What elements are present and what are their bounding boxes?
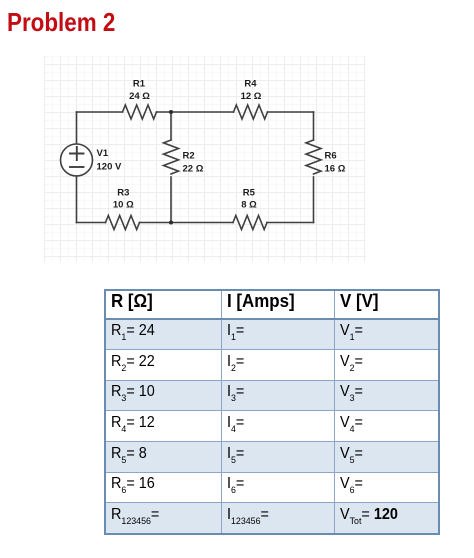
wire right rail upper	[313, 112, 315, 140]
svg-text:R4: R4	[244, 79, 257, 90]
label R2	[183, 151, 204, 175]
resistor R4	[234, 105, 268, 119]
resistor R6	[306, 140, 321, 174]
label V1	[97, 148, 122, 173]
wire top-middle	[157, 111, 234, 113]
schematic grid background	[44, 56, 366, 262]
wire bottom-left	[77, 222, 106, 224]
node junction top	[169, 110, 173, 114]
svg-text:V1: V1	[97, 148, 109, 159]
wire bottom-right	[267, 222, 314, 224]
label R3	[113, 188, 134, 211]
svg-text:R2: R2	[183, 151, 195, 162]
svg-text:12 Ω: 12 Ω	[241, 91, 262, 102]
wire bottom-middle	[140, 222, 234, 224]
label R6	[325, 151, 346, 175]
V1 plus sign	[70, 147, 84, 160]
wire top-left	[77, 111, 123, 113]
V1 minus sign	[70, 166, 84, 168]
resistor R2	[164, 140, 179, 174]
svg-text:R6: R6	[325, 151, 337, 162]
label R1	[129, 79, 150, 103]
svg-text:22 Ω: 22 Ω	[183, 164, 204, 175]
label R4	[241, 79, 262, 103]
svg-text:24 Ω: 24 Ω	[129, 91, 150, 102]
resistor R1	[123, 105, 157, 119]
svg-text:120 V: 120 V	[97, 162, 122, 173]
svg-text:R5: R5	[243, 188, 256, 199]
wire top-right	[268, 111, 314, 113]
wire right rail lower	[313, 177, 315, 223]
svg-text:R1: R1	[133, 79, 146, 90]
wire left rail lower	[76, 176, 78, 223]
wire left rail upper	[76, 112, 78, 144]
resistor R3	[106, 216, 140, 230]
svg-text:8 Ω: 8 Ω	[241, 200, 257, 211]
svg-text:16 Ω: 16 Ω	[325, 164, 346, 175]
label R5	[241, 188, 257, 211]
svg-text:10 Ω: 10 Ω	[113, 200, 134, 211]
svg-text:R3: R3	[117, 188, 129, 199]
results table	[104, 289, 440, 535]
title	[7, 7, 115, 38]
node junction bottom	[169, 221, 173, 225]
voltage source V1	[61, 144, 93, 176]
resistor R5	[233, 216, 267, 230]
wire R2 branch upper	[170, 112, 172, 140]
wire R2 branch lower	[170, 177, 172, 223]
